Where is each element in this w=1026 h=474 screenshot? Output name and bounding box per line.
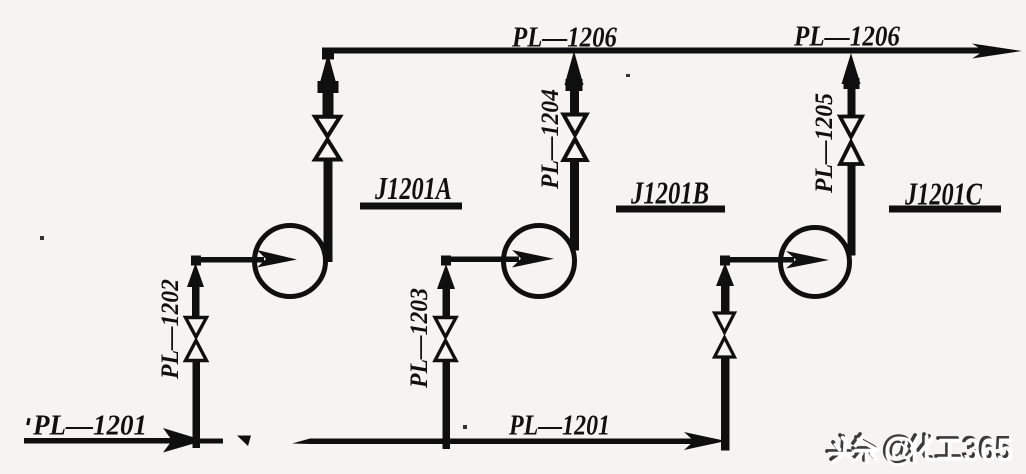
flow arrow at PL-1206 outlet: [972, 44, 1022, 59]
flow arrow into pump J1201C: [786, 251, 829, 269]
pipe: PL-1204 riser above valve: [570, 88, 579, 115]
svg-text:365: 365: [964, 432, 1014, 469]
svg-text:PL—1201: PL—1201: [508, 411, 610, 442]
pump J1201B: [504, 226, 575, 297]
artifact mark near PL-1201: [237, 436, 251, 447]
svg-text:PL—1203: PL—1203: [406, 288, 433, 389]
svg-text:PL—1205: PL—1205: [811, 93, 838, 194]
pipe: PL-1205 riser below valve: [848, 166, 856, 256]
flow arrow on PL-1202 riser: [187, 263, 204, 287]
pipe: PL-1205 riser above valve: [848, 86, 856, 117]
pipe: pump C suction horizontal: [726, 257, 794, 263]
pipe: pump C suction riser below valve: [721, 359, 730, 451]
svg-text:PL—1206: PL—1206: [511, 23, 617, 54]
pipe: pump A suction horizontal: [194, 257, 264, 263]
valve on PL-1205: [840, 117, 862, 165]
pipe: PL-1201 stub after junction: [198, 439, 223, 444]
flow arrow on pump A discharge riser: [319, 53, 338, 88]
svg-text:PL—1201: PL—1201: [32, 411, 147, 442]
elbow: header to pump A discharge riser: [322, 48, 334, 60]
valve on PL-1204: [564, 115, 587, 161]
pipe: PL-1203 riser below valve: [443, 362, 451, 449]
flow arrow into pump J1201A: [257, 250, 297, 268]
pipe: PL-1204 riser below valve: [570, 162, 579, 251]
flow arrow on PL-1204 riser: [565, 51, 584, 85]
pipe: PL-1202 riser above valve: [192, 284, 200, 317]
svg-text:PL—1204: PL—1204: [537, 89, 564, 190]
svg-text:J1201B: J1201B: [630, 175, 709, 211]
valve on PL-1202: [186, 318, 207, 361]
flow arrow on PL-1205 riser: [842, 53, 861, 84]
flow arrow into pump J1201B: [512, 250, 554, 268]
svg-text:J1201A: J1201A: [374, 170, 452, 206]
flow arrow on PL-1201 into pump C suction riser: [684, 432, 726, 450]
pipe PL-1206 top header: [322, 48, 984, 54]
flow arrow on PL-1201 into pump A suction riser: [163, 428, 204, 453]
pipe: pump A discharge riser (upper): [323, 90, 334, 116]
svg-text:PL—1202: PL—1202: [157, 279, 184, 380]
flow arrow on PL-1203 riser: [437, 264, 455, 289]
pipe: PL-1203 riser above valve: [443, 286, 451, 317]
valve on PL-1203: [435, 318, 456, 361]
elbow: PL-1202 riser to pump A suction: [191, 256, 201, 266]
pump J1201C: [781, 228, 850, 297]
elbow: PL riser to pump C suction: [720, 256, 730, 266]
pipe: pump C suction riser above valve: [721, 283, 730, 313]
valve on pump C suction riser: [715, 313, 735, 357]
valve on pump A discharge line: [315, 117, 340, 160]
watermark 头条 @化工365: [827, 428, 1014, 469]
pipe: pump B suction horizontal: [447, 257, 519, 263]
elbow: PL-1203 riser to pump B suction: [441, 256, 451, 266]
flow arrow on pump C suction riser: [716, 263, 734, 286]
speck artifacts: [40, 236, 44, 240]
svg-text:PL—1206: PL—1206: [793, 22, 900, 53]
pump J1201A: [255, 226, 326, 297]
pipe PL-1201 (main bottom segment): [292, 439, 696, 445]
pipe: pump A discharge riser (lower): [324, 161, 333, 262]
pipe PL-1201 (left segment): [24, 438, 198, 444]
pipe: PL-1202 riser below valve: [193, 362, 201, 448]
